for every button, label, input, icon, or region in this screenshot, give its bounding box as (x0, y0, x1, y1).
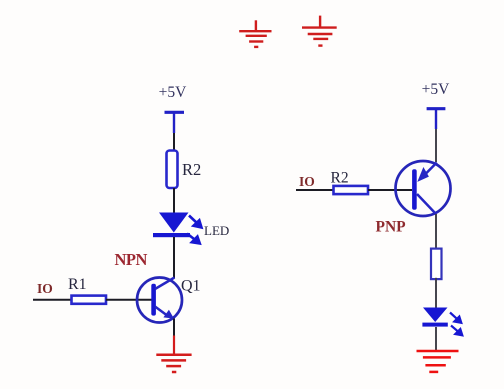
svg-text:PNP: PNP (376, 219, 407, 236)
svg-text:IO: IO (37, 281, 53, 296)
svg-text:LED: LED (204, 223, 229, 238)
svg-text:+5V: +5V (422, 81, 450, 98)
svg-text:IO: IO (299, 174, 315, 189)
svg-text:Q1: Q1 (181, 278, 201, 295)
svg-text:+5V: +5V (159, 84, 187, 101)
svg-text:R1: R1 (68, 276, 87, 293)
svg-text:R2: R2 (331, 170, 349, 187)
svg-text:NPN: NPN (115, 250, 148, 269)
svg-text:R2: R2 (182, 160, 201, 179)
